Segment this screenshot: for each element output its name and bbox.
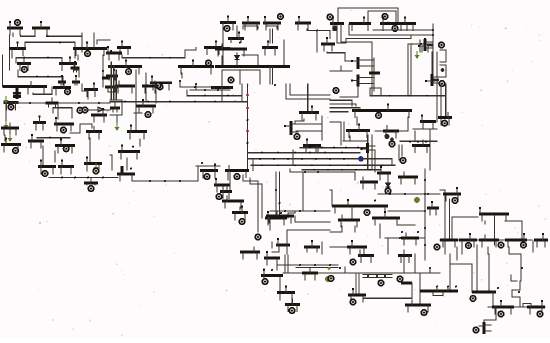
node N37 bbox=[376, 113, 382, 119]
wire bbox=[494, 215, 496, 245]
node N38 bbox=[384, 134, 389, 139]
junction bbox=[424, 179, 426, 181]
wire bbox=[340, 96, 358, 98]
wire bbox=[269, 29, 271, 43]
transistor Q26 bbox=[349, 16, 371, 30]
node N72 bbox=[473, 327, 479, 333]
junction bbox=[333, 147, 335, 149]
junction bbox=[321, 147, 323, 149]
wire bbox=[433, 292, 443, 296]
wire bbox=[429, 268, 431, 273]
wire bbox=[370, 95, 446, 97]
transistor Q50 bbox=[115, 81, 135, 93]
junction bbox=[404, 193, 406, 195]
wire bbox=[266, 26, 277, 29]
wire bbox=[349, 24, 433, 35]
node N8 bbox=[278, 14, 284, 20]
transistor Q47 bbox=[91, 108, 107, 122]
wire bus bbox=[270, 210, 330, 212]
transistor Q73 bbox=[276, 238, 290, 252]
wire bbox=[241, 84, 243, 102]
junction bbox=[110, 50, 112, 52]
transistor Q53 bbox=[110, 103, 120, 112]
wire bbox=[400, 140, 437, 142]
node N19 bbox=[427, 43, 430, 46]
wire bbox=[185, 48, 196, 58]
ground bbox=[4, 121, 9, 129]
wire bbox=[113, 66, 115, 100]
wire bus bbox=[385, 237, 425, 239]
node N43 bbox=[442, 120, 448, 126]
node N65 bbox=[397, 276, 403, 282]
wire bbox=[316, 31, 318, 53]
wire bbox=[2, 55, 4, 87]
wire bbox=[295, 221, 330, 223]
wire bbox=[274, 52, 276, 55]
junction bbox=[23, 57, 25, 59]
junction bbox=[227, 95, 229, 97]
junction bbox=[247, 142, 249, 144]
transistor Q35 bbox=[53, 80, 71, 94]
node N63 bbox=[350, 259, 356, 265]
junction bbox=[194, 86, 196, 88]
junction bbox=[98, 102, 100, 104]
transistor Q81 bbox=[304, 240, 320, 252]
transistor Q58 bbox=[284, 121, 298, 135]
transistor Q61 bbox=[346, 123, 370, 137]
wire bbox=[414, 254, 416, 273]
junction bbox=[324, 152, 326, 154]
junction bbox=[420, 43, 422, 45]
wire bbox=[181, 73, 183, 78]
wire bbox=[279, 172, 281, 215]
node N12 bbox=[332, 26, 338, 32]
node N34 bbox=[246, 107, 249, 110]
node N36 bbox=[294, 134, 300, 140]
wire bbox=[271, 242, 273, 248]
junction bbox=[47, 76, 49, 78]
node N40 bbox=[389, 141, 395, 147]
wire bbox=[277, 264, 338, 266]
wire bbox=[288, 211, 295, 218]
transistor Q100 bbox=[285, 299, 300, 311]
wire bbox=[407, 44, 409, 96]
transistor Q6 bbox=[59, 56, 77, 70]
wire bbox=[272, 67, 274, 85]
junction bbox=[54, 102, 56, 104]
wire bbox=[286, 230, 288, 254]
transistor Q42 bbox=[1, 137, 21, 151]
junction bbox=[357, 147, 359, 149]
node N32 bbox=[145, 112, 151, 118]
transistor Q86 bbox=[372, 211, 400, 225]
wire bbox=[102, 55, 104, 87]
transistor Q33 bbox=[418, 39, 432, 51]
transistor Q55 bbox=[127, 124, 147, 138]
wire bbox=[401, 282, 412, 285]
wire bbox=[346, 35, 411, 39]
wire bbox=[327, 52, 351, 61]
node N30 bbox=[93, 168, 99, 174]
junction bbox=[149, 57, 151, 59]
wire bbox=[197, 166, 199, 170]
wire bbox=[286, 84, 330, 99]
wire bbox=[340, 25, 342, 42]
node N49 bbox=[255, 234, 261, 240]
junction bbox=[61, 177, 63, 179]
wire bbox=[354, 226, 356, 232]
node N57 bbox=[466, 243, 472, 249]
wire bbox=[450, 254, 472, 292]
node N51 bbox=[239, 219, 245, 225]
wire bbox=[287, 255, 289, 273]
wire bbox=[429, 129, 431, 170]
junction bbox=[316, 30, 318, 32]
wire bbox=[3, 85, 28, 88]
junction bbox=[263, 269, 265, 271]
wire bbox=[344, 267, 346, 273]
wire bbox=[190, 89, 230, 91]
transistor Q76 bbox=[220, 184, 232, 198]
wire bbox=[108, 88, 115, 92]
wire bbox=[330, 172, 355, 180]
transistor Q7 bbox=[71, 61, 80, 72]
wire bbox=[227, 171, 229, 180]
wire bbox=[250, 178, 262, 218]
junction bbox=[518, 291, 520, 293]
wire bbox=[387, 238, 389, 254]
junction bbox=[347, 164, 349, 166]
wire bbox=[294, 216, 296, 222]
wire bbox=[431, 52, 433, 74]
wire bbox=[401, 145, 403, 156]
junction bbox=[261, 152, 263, 154]
wire bbox=[283, 40, 285, 67]
transistor Q19 bbox=[263, 16, 281, 30]
wire bbox=[54, 151, 56, 162]
junction bbox=[179, 80, 181, 82]
transistor Q22 bbox=[215, 44, 247, 56]
junction bbox=[389, 95, 391, 97]
wire bbox=[284, 255, 286, 273]
junction bbox=[314, 210, 316, 212]
wire bbox=[398, 224, 415, 226]
wire bbox=[196, 165, 220, 167]
node N68 bbox=[421, 310, 427, 316]
wire bbox=[356, 117, 358, 125]
transistor Q24 bbox=[321, 37, 335, 51]
wire bbox=[343, 140, 367, 142]
wire bbox=[512, 281, 520, 307]
wire bbox=[272, 29, 274, 43]
junction bbox=[425, 140, 427, 142]
wire bbox=[5, 104, 7, 122]
transistor Q74 bbox=[264, 251, 280, 265]
transistor Q57 bbox=[299, 105, 319, 119]
wire bbox=[340, 122, 342, 145]
transistor Q17 bbox=[220, 15, 236, 29]
wire bus bbox=[247, 84, 249, 171]
transistor Q14 bbox=[178, 59, 214, 73]
wire bbox=[13, 95, 21, 98]
wire bbox=[16, 88, 19, 99]
transistor Q8 bbox=[58, 75, 66, 85]
wire bbox=[302, 172, 304, 211]
transistor Q29 bbox=[351, 57, 373, 69]
junction bbox=[47, 35, 49, 37]
node N46 bbox=[204, 174, 210, 180]
wire bus bbox=[378, 193, 440, 195]
wire bbox=[363, 297, 412, 299]
wire bbox=[105, 86, 118, 89]
junction bbox=[409, 140, 411, 142]
junction bbox=[311, 164, 313, 166]
transistor Q97 bbox=[534, 233, 548, 247]
node N60 bbox=[328, 267, 331, 270]
wire bbox=[341, 41, 372, 43]
junction bbox=[315, 158, 317, 160]
wire bbox=[452, 216, 478, 218]
ground bbox=[4, 96, 9, 104]
wire bbox=[436, 287, 438, 291]
wire bus bbox=[248, 152, 361, 154]
transistor Q92 bbox=[479, 207, 509, 221]
wire bbox=[9, 35, 11, 70]
junction bbox=[273, 158, 275, 160]
transistor Q67 bbox=[84, 178, 98, 185]
node N11 bbox=[382, 14, 388, 20]
junction bbox=[277, 152, 279, 154]
wire bbox=[330, 104, 356, 106]
node N13 bbox=[392, 26, 398, 32]
transistor Q106 bbox=[527, 300, 545, 314]
wire bus bbox=[248, 158, 366, 160]
wire bbox=[242, 55, 258, 66]
transistor Q39 bbox=[33, 115, 46, 129]
wire bbox=[292, 150, 294, 165]
transistor Q15 bbox=[150, 76, 172, 90]
wire bbox=[9, 129, 11, 135]
transistor Q32 bbox=[422, 38, 428, 52]
wire bbox=[77, 55, 79, 60]
wire bbox=[15, 58, 17, 63]
transistor Q94 bbox=[459, 233, 477, 247]
junction bbox=[87, 177, 89, 179]
wire bbox=[440, 190, 445, 254]
junction bbox=[429, 267, 431, 269]
junction bbox=[284, 210, 286, 212]
wire bus bbox=[300, 147, 368, 149]
wire bbox=[53, 108, 72, 118]
diode bbox=[386, 180, 391, 191]
wire bbox=[511, 275, 517, 281]
wire bbox=[330, 121, 341, 123]
transistor Q20 bbox=[295, 16, 311, 30]
junction bbox=[195, 83, 197, 85]
transistor Q51 bbox=[142, 81, 158, 93]
wire bbox=[102, 77, 110, 80]
wire bbox=[221, 84, 223, 102]
transistor Q102 bbox=[398, 250, 412, 262]
wire bbox=[413, 128, 437, 130]
junction bbox=[247, 119, 249, 121]
wire bbox=[115, 70, 117, 100]
junction bbox=[313, 169, 315, 171]
wire bbox=[9, 123, 11, 128]
junction bbox=[424, 227, 426, 229]
wire bbox=[243, 175, 258, 232]
wire bbox=[276, 265, 278, 270]
node N69 bbox=[470, 296, 476, 302]
wire bbox=[358, 273, 360, 295]
junction bbox=[214, 101, 216, 103]
junction bbox=[204, 89, 206, 91]
wire bbox=[355, 273, 357, 295]
junction bbox=[36, 76, 38, 78]
wire bbox=[370, 88, 381, 96]
wire bbox=[419, 40, 421, 52]
wire bbox=[139, 139, 141, 146]
wire bbox=[330, 246, 347, 248]
transistor Q63 bbox=[420, 114, 436, 128]
junction bbox=[427, 193, 429, 195]
wire bbox=[222, 101, 247, 103]
transistor Q44 bbox=[55, 138, 75, 152]
wire bbox=[93, 33, 95, 48]
transistor Q70 bbox=[214, 178, 230, 192]
wire bbox=[90, 178, 92, 183]
node N29 bbox=[82, 107, 88, 113]
wire bbox=[338, 8, 398, 22]
node N47 bbox=[216, 194, 222, 200]
junction bbox=[411, 237, 413, 239]
wire bbox=[16, 58, 62, 63]
wire bbox=[492, 292, 494, 307]
transistor Q87 bbox=[398, 172, 418, 184]
junction bbox=[280, 212, 282, 214]
wire bbox=[476, 245, 478, 292]
wire bbox=[440, 65, 446, 77]
transistor Q90 bbox=[347, 240, 367, 254]
wire bbox=[290, 169, 330, 172]
node N44 bbox=[42, 171, 48, 177]
junction bbox=[299, 264, 301, 266]
node N23 bbox=[65, 89, 71, 95]
wire bbox=[121, 166, 124, 173]
wire bbox=[111, 155, 113, 170]
wire bbox=[215, 65, 290, 68]
node N1 bbox=[15, 20, 21, 26]
wire bbox=[487, 247, 489, 254]
wire bbox=[110, 154, 112, 156]
wire bus bbox=[302, 169, 380, 171]
wire bbox=[187, 96, 242, 102]
wire bbox=[264, 52, 266, 55]
junction bbox=[432, 34, 434, 36]
wire bbox=[110, 62, 112, 100]
transistor Q23 bbox=[262, 40, 278, 54]
wire bbox=[403, 256, 405, 273]
wire bus bbox=[110, 101, 247, 103]
wire bbox=[449, 199, 451, 238]
wire bbox=[42, 146, 44, 166]
transistor Q78 bbox=[232, 205, 248, 219]
transistor Q68 bbox=[117, 167, 135, 181]
wire bbox=[79, 124, 81, 133]
node N18 bbox=[333, 88, 339, 94]
transistor Q38 bbox=[46, 98, 59, 107]
junction bbox=[59, 41, 61, 43]
junction bbox=[271, 269, 273, 271]
wire bbox=[89, 138, 91, 162]
node N10 bbox=[228, 77, 234, 83]
junction bbox=[149, 180, 151, 182]
junction bbox=[179, 180, 181, 182]
transistor Q80 bbox=[240, 247, 260, 259]
transistor Q96 bbox=[505, 233, 527, 247]
junction bbox=[343, 158, 345, 160]
wire bbox=[472, 291, 496, 294]
transistor Q89 bbox=[401, 233, 419, 245]
wire bbox=[51, 87, 53, 94]
node N33 bbox=[246, 94, 249, 97]
wire bbox=[330, 70, 352, 72]
junction bbox=[317, 171, 319, 173]
wire bbox=[307, 84, 309, 112]
wire bbox=[4, 135, 6, 141]
wire bbox=[330, 111, 348, 113]
node N41 bbox=[358, 156, 364, 162]
wire bus bbox=[440, 239, 532, 241]
wire bbox=[272, 246, 279, 252]
wire bbox=[484, 221, 486, 224]
wire bbox=[379, 224, 381, 238]
wire bbox=[279, 277, 281, 292]
transistor Q103 bbox=[348, 288, 366, 302]
wire bbox=[388, 210, 425, 212]
transistor Q85 bbox=[338, 215, 360, 227]
wire bbox=[445, 84, 447, 118]
transistor Q66 bbox=[438, 113, 452, 125]
node N67 bbox=[350, 299, 356, 305]
transistor Q13 bbox=[204, 40, 222, 54]
wire bbox=[329, 31, 331, 39]
junction bbox=[417, 140, 419, 142]
wire bbox=[373, 58, 375, 91]
wire bbox=[509, 247, 521, 281]
node N15 bbox=[433, 78, 436, 81]
wire bbox=[375, 130, 383, 132]
node N35 bbox=[246, 130, 249, 133]
wire bbox=[343, 122, 345, 140]
node N20 bbox=[430, 43, 433, 46]
wire bbox=[21, 35, 36, 36]
node N26 bbox=[13, 148, 19, 154]
wire bbox=[330, 100, 352, 106]
junction bbox=[384, 275, 386, 277]
wire bbox=[291, 293, 293, 305]
node N54 bbox=[364, 210, 370, 216]
wire bbox=[134, 112, 142, 114]
transistor Q18 bbox=[242, 16, 260, 30]
junction bbox=[204, 95, 206, 97]
wire bbox=[374, 150, 376, 172]
wire bbox=[363, 277, 392, 279]
junction bbox=[169, 57, 171, 59]
wire bbox=[126, 158, 128, 170]
wire bbox=[96, 40, 98, 44]
transistor Q12 bbox=[108, 59, 142, 73]
